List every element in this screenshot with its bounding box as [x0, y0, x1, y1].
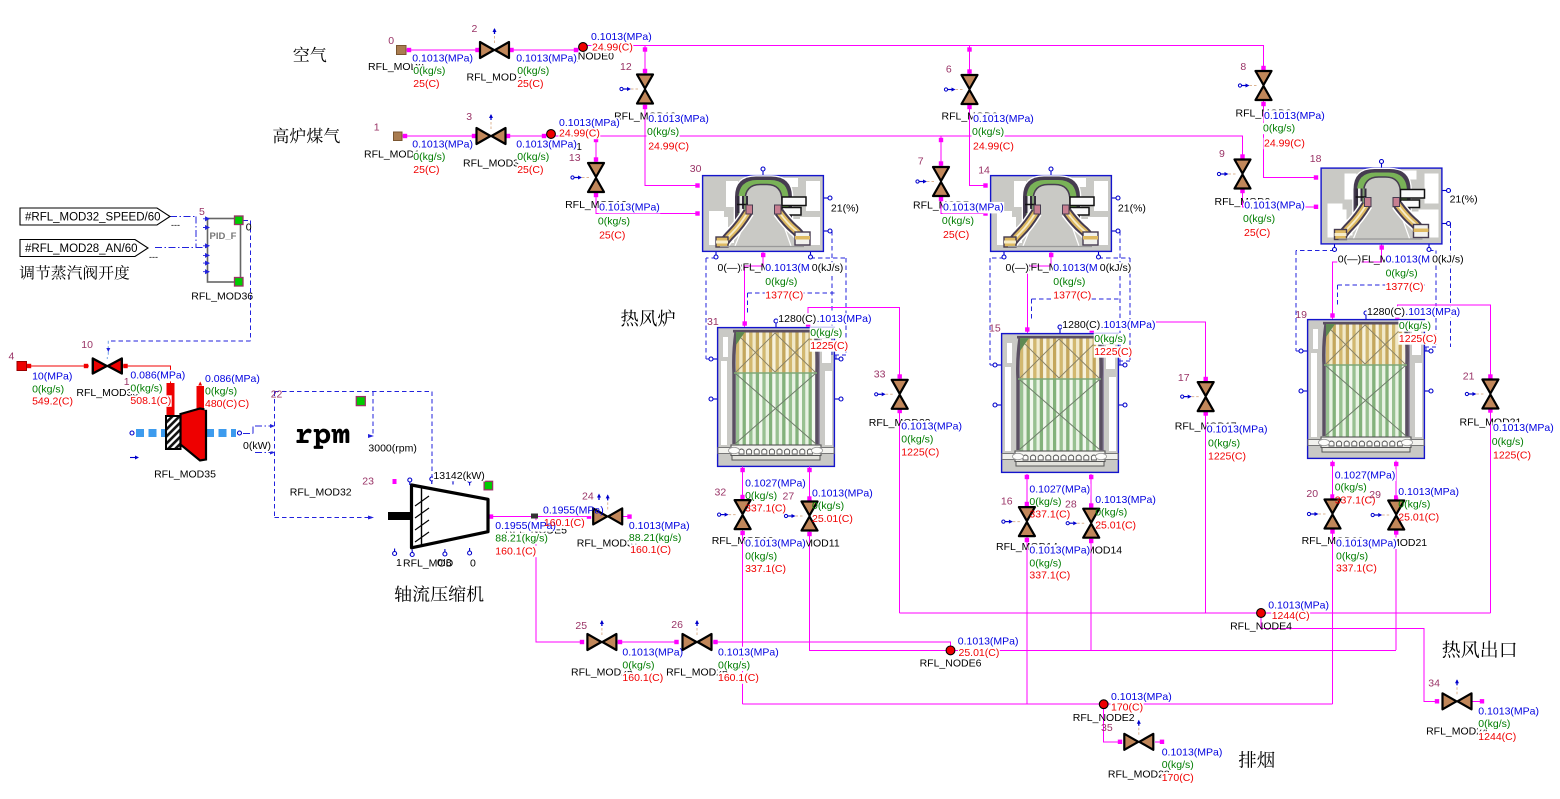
svg-text:0(kg/s): 0(kg/s)	[901, 434, 933, 446]
svg-text:31: 31	[707, 316, 719, 328]
node RFL_NODE2	[1099, 700, 1108, 709]
svg-text:18: 18	[1310, 153, 1322, 165]
svg-text:25(C): 25(C)	[1244, 227, 1270, 239]
svg-text:21(%): 21(%)	[831, 203, 859, 215]
regen 31 port stubs	[711, 358, 717, 360]
svg-text:0(—): 0(—)	[718, 262, 741, 274]
svg-text:0(kg/s): 0(kg/s)	[517, 65, 549, 77]
input tag #RFL_MOD32_SPEED/60	[20, 208, 170, 225]
wire regen 31 to valve 27	[809, 467, 811, 502]
svg-text:21: 21	[1463, 371, 1475, 383]
svg-text:RFL_MOD23: RFL_MOD23	[1108, 769, 1170, 781]
svg-text:RFL_MOD30: RFL_MOD30	[76, 387, 138, 399]
wire valve 21 to header	[1489, 394, 1491, 613]
valve RFL_MOD2	[494, 34, 496, 43]
wire regen 19 hot outlet to valve 21	[1397, 305, 1490, 379]
svg-text:9: 9	[1219, 148, 1225, 160]
svg-text:25(C): 25(C)	[943, 229, 969, 241]
svg-text:#RFL_MOD28_AN/60: #RFL_MOD28_AN/60	[25, 243, 138, 255]
valve RFL_MOD12	[629, 88, 638, 90]
svg-text:26: 26	[671, 619, 683, 631]
svg-text:0!8: 0!8	[437, 557, 452, 569]
svg-text:0.1013(M: 0.1013(M	[1386, 254, 1430, 266]
wire steam source to valve 10	[26, 365, 89, 367]
svg-text:88.21(kg/s): 88.21(kg/s)	[629, 532, 682, 544]
valve RFL_MOD3	[490, 120, 492, 129]
svg-text:0(kg/s): 0(kg/s)	[745, 490, 777, 502]
svg-text:0.1013(MPa): 0.1013(MPa)	[1029, 544, 1090, 556]
svg-text:19: 19	[1295, 309, 1307, 321]
svg-text:1377(C): 1377(C)	[1386, 281, 1424, 293]
signal wire turbine speed dash-dot	[243, 427, 253, 434]
svg-text:34: 34	[1428, 678, 1440, 690]
svg-text:337.1(C): 337.1(C)	[1336, 563, 1377, 575]
valve RFL_MOD33 hot blast 1	[884, 393, 893, 395]
svg-text:160.1(C): 160.1(C)	[495, 546, 536, 558]
svg-text:0(kg/s): 0(kg/s)	[1478, 718, 1510, 730]
wire valve 28 to cold main	[1090, 538, 1092, 651]
svg-text:25.01(C): 25.01(C)	[1398, 511, 1439, 523]
svg-text:23: 23	[362, 475, 374, 487]
svg-text:0(kg/s): 0(kg/s)	[205, 386, 237, 398]
wire valve 20 to smoke main	[1332, 528, 1334, 704]
svg-text:20: 20	[1306, 488, 1318, 500]
hot blast stove furnace 14	[991, 176, 1112, 252]
svg-text:1: 1	[374, 122, 380, 134]
svg-text:0.1955(MPa): 0.1955(MPa)	[543, 504, 604, 516]
svg-text:0: 0	[388, 35, 394, 47]
svg-text:0(kg/s): 0(kg/s)	[413, 151, 445, 163]
svg-text:15: 15	[989, 323, 1001, 335]
wire cold blast main	[810, 649, 1397, 651]
hot blast stove furnace 18	[1321, 168, 1442, 244]
svg-text:88.21(kg/s): 88.21(kg/s)	[495, 533, 548, 545]
stove 30 port stubs	[762, 169, 764, 175]
wire valve 8 inlet	[1263, 60, 1265, 71]
wire valve 9 to stove 18	[1243, 189, 1318, 207]
svg-text:0.1013(MPa): 0.1013(MPa)	[718, 647, 779, 659]
svg-text:1377(C): 1377(C)	[765, 290, 803, 302]
label 热风炉 (hot blast stove)	[621, 309, 675, 326]
svg-text:1225(C): 1225(C)	[1399, 333, 1437, 345]
svg-text:0(kg/s): 0(kg/s)	[1162, 759, 1194, 771]
node RFL_NODE0	[579, 43, 588, 52]
wire compressor outlet	[488, 517, 583, 642]
svg-text:0.1013(MPa): 0.1013(MPa)	[1162, 747, 1223, 759]
svg-text:0(kg/s): 0(kg/s)	[1029, 557, 1061, 569]
wire regen 31 hot outlet to valve 33	[808, 308, 900, 380]
wire valve 6 to stove 14	[970, 104, 988, 186]
svg-text:0(kg/s): 0(kg/s)	[812, 500, 844, 512]
svg-text:0.1013(MPa): 0.1013(MPa)	[745, 538, 806, 550]
regen 15 port stubs	[995, 364, 1001, 366]
valve RFL_MOD11 cold 1	[794, 515, 803, 517]
svg-text:1280(C): 1280(C)	[1367, 306, 1405, 318]
svg-text:160.1(C): 160.1(C)	[544, 517, 585, 529]
svg-text:21(%): 21(%)	[1118, 203, 1146, 215]
svg-text:5: 5	[199, 206, 205, 218]
label 调节蒸汽阀开度	[20, 265, 130, 280]
wire NODE2 to valve 35	[1104, 708, 1121, 742]
svg-text:0(kJ/s): 0(kJ/s)	[812, 262, 844, 274]
svg-text:17: 17	[1178, 372, 1190, 384]
svg-text:170(C): 170(C)	[1111, 702, 1143, 714]
wire valve 13 to stove 30	[596, 192, 699, 214]
speed display rpm block RFL_MOD32	[296, 429, 349, 449]
svg-text:0.1013(MPa): 0.1013(MPa)	[958, 635, 1019, 647]
compressor power green square	[484, 481, 493, 490]
svg-text:1244(C): 1244(C)	[1478, 731, 1516, 743]
svg-text:1225(C): 1225(C)	[901, 447, 939, 459]
svg-text:27: 27	[783, 490, 795, 502]
svg-text:0.1013(MPa): 0.1013(MPa)	[516, 138, 577, 150]
valve RFL_MOD14 flue 2	[1011, 521, 1020, 523]
svg-text:0(kg/s): 0(kg/s)	[1336, 550, 1368, 562]
svg-text:0(kg/s): 0(kg/s)	[718, 659, 750, 671]
svg-text:160.1(C): 160.1(C)	[630, 544, 671, 556]
svg-text:.1013(MPa): .1013(MPa)	[1405, 306, 1460, 318]
svg-text:28: 28	[1065, 499, 1077, 511]
svg-text:0.1013(MPa): 0.1013(MPa)	[622, 647, 683, 659]
wire valve 8 to stove 18	[1264, 100, 1318, 178]
valve RFL_MOD25	[601, 626, 603, 635]
svg-text:13: 13	[569, 152, 581, 164]
source RFL_MOD1 gas	[394, 132, 403, 141]
svg-text:#RFL_MOD32_SPEED/60: #RFL_MOD32_SPEED/60	[25, 212, 161, 224]
wire valve 29 to cold main	[1395, 529, 1397, 650]
svg-text:14: 14	[978, 164, 990, 176]
svg-text:RFL_MOD3: RFL_MOD3	[463, 158, 519, 170]
wire gas branch valve 7	[940, 136, 942, 167]
PID controller RFL_MOD36	[208, 219, 241, 283]
svg-text:.1013(MPa): .1013(MPa)	[817, 313, 872, 325]
svg-text:0.1013(MPa): 0.1013(MPa)	[943, 202, 1004, 214]
node RFL_NODE4	[1257, 609, 1266, 618]
wire valve 24 outlet vent	[623, 516, 632, 518]
svg-text:0.1013(MPa): 0.1013(MPa)	[901, 421, 962, 433]
node RFL_NODE1	[547, 130, 556, 139]
wire valve 7 to stove 14	[941, 196, 987, 214]
svg-text:0.1013(M: 0.1013(M	[1053, 262, 1097, 274]
regen 19 port stubs	[1301, 350, 1307, 352]
wire air source to NODE0	[406, 49, 579, 51]
svg-text:0(kg/s): 0(kg/s)	[32, 383, 64, 395]
svg-text:337.1(C): 337.1(C)	[745, 563, 786, 575]
svg-text:21(%): 21(%)	[1450, 194, 1478, 206]
svg-text:1: 1	[124, 376, 130, 388]
svg-text:1225(C): 1225(C)	[1094, 346, 1132, 358]
svg-text:29: 29	[1369, 489, 1381, 501]
svg-text:0(kg/s): 0(kg/s)	[1094, 333, 1126, 345]
wire air branch valve 12	[644, 46, 646, 75]
svg-text:24.99(C): 24.99(C)	[559, 128, 600, 140]
valve RFL_MOD19 flue 3	[1317, 513, 1326, 515]
svg-text:1: 1	[396, 557, 402, 569]
svg-text:1280(C): 1280(C)	[778, 313, 816, 325]
turbine RFL_MOD35	[136, 429, 166, 437]
svg-text:0(kg/s): 0(kg/s)	[647, 126, 679, 138]
svg-text:---: ---	[149, 252, 158, 262]
valve RFL_MOD13	[580, 177, 589, 179]
svg-text:160.1(C): 160.1(C)	[622, 672, 663, 684]
svg-text:25: 25	[575, 620, 587, 632]
wire regen 15 to valve 16	[1026, 474, 1028, 507]
valve RFL_MOD15 cold 2	[1075, 522, 1084, 524]
svg-text:0(kg/s): 0(kg/s)	[413, 65, 445, 77]
input tag #RFL_MOD28_AN/60	[20, 240, 148, 257]
svg-text:0: 0	[246, 221, 252, 233]
label 排烟 (smoke exhaust)	[1239, 751, 1275, 768]
svg-text:25(C): 25(C)	[517, 164, 543, 176]
svg-text:1225(C): 1225(C)	[1493, 450, 1531, 462]
svg-text:3000(rpm): 3000(rpm)	[368, 443, 416, 455]
svg-text:22: 22	[271, 389, 283, 401]
svg-text:RFL_MOD2: RFL_MOD2	[467, 72, 523, 84]
wire air branch valve 6	[969, 46, 971, 76]
svg-text:RFL_MOD35: RFL_MOD35	[154, 468, 216, 480]
svg-text:0(kg/s): 0(kg/s)	[1208, 437, 1240, 449]
svg-text:549.2(C): 549.2(C)	[32, 396, 73, 408]
svg-text:0.086(MPa): 0.086(MPa)	[205, 373, 260, 385]
svg-text:0(kg/s): 0(kg/s)	[1053, 276, 1085, 288]
valve RFL_MOD34 hot outlet	[1456, 685, 1458, 694]
svg-text:0(kJ/s): 0(kJ/s)	[1432, 254, 1464, 266]
svg-text:6: 6	[946, 64, 952, 76]
svg-text:RFL_NODE4: RFL_NODE4	[1230, 621, 1292, 633]
svg-text:0.1013(MPa): 0.1013(MPa)	[1336, 537, 1397, 549]
svg-text:10: 10	[81, 339, 93, 351]
svg-text:0(kg/s): 0(kg/s)	[810, 327, 842, 339]
svg-text:0(kg/s): 0(kg/s)	[1243, 213, 1275, 225]
svg-text:0(kg/s): 0(kg/s)	[1399, 320, 1431, 332]
valve RFL_MOD30 steam red	[106, 357, 108, 359]
wire to valve 24	[536, 516, 590, 518]
svg-text:0.1013(MPa): 0.1013(MPa)	[412, 138, 473, 150]
svg-text:0(—): 0(—)	[1338, 254, 1361, 266]
svg-text:0.1027(MPa): 0.1027(MPa)	[745, 478, 806, 490]
valve RFL_MOD9	[1227, 173, 1236, 175]
svg-text:8: 8	[1240, 61, 1246, 73]
svg-text:0.1013(MPa): 0.1013(MPa)	[1207, 423, 1268, 435]
svg-text:7: 7	[918, 156, 924, 168]
svg-text:0.086(MPa): 0.086(MPa)	[130, 370, 185, 382]
value label backgrounds	[412, 53, 474, 65]
node RFL_NODE6	[946, 646, 955, 655]
svg-text:1225(C): 1225(C)	[1208, 450, 1246, 462]
svg-text:0.1013(MPa): 0.1013(MPa)	[1095, 494, 1156, 506]
wire gas source to NODE1	[402, 135, 547, 137]
svg-text:0(kg/s): 0(kg/s)	[942, 215, 974, 227]
svg-text:0(kg/s): 0(kg/s)	[1335, 482, 1367, 494]
stove 18 port stubs	[1381, 162, 1383, 168]
svg-text:25(C): 25(C)	[517, 78, 543, 90]
wire regen 15 to valve 28	[1090, 474, 1092, 509]
svg-text:25(C): 25(C)	[413, 78, 439, 90]
svg-text:0.1013(MPa): 0.1013(MPa)	[1398, 486, 1459, 498]
svg-text:0.1013(MPa): 0.1013(MPa)	[1244, 199, 1305, 211]
svg-text:0: 0	[470, 558, 476, 570]
wire valve 16 to smoke main	[1026, 537, 1028, 704]
signal wire tag1 to PID	[170, 216, 196, 247]
valve RFL_MOD20 cold 3	[1380, 514, 1389, 516]
svg-text:0.1027(MPa): 0.1027(MPa)	[1335, 469, 1396, 481]
valve RFL_MOD35b smoke	[1138, 726, 1140, 735]
svg-text:480(C): 480(C)	[205, 398, 237, 410]
svg-text:16: 16	[1001, 496, 1013, 508]
wire valve 34 outlet	[1472, 700, 1483, 702]
svg-text:0(—): 0(—)	[1006, 262, 1029, 274]
svg-text:0.1013(MPa): 0.1013(MPa)	[648, 113, 709, 125]
svg-text:0.1013(MPa): 0.1013(MPa)	[412, 52, 473, 64]
svg-text:RFL_NODE6: RFL_NODE6	[920, 658, 982, 670]
svg-text:0.1013(MPa): 0.1013(MPa)	[973, 113, 1034, 125]
svg-text:0.1013(MPa): 0.1013(MPa)	[629, 520, 690, 532]
svg-text:0(kg/s): 0(kg/s)	[622, 659, 654, 671]
wire regen 15 hot outlet to valve 17	[1092, 322, 1206, 382]
signal wires stove18-regen19 dashed	[1296, 245, 1335, 352]
svg-text:0(kg/s): 0(kg/s)	[765, 276, 797, 288]
svg-text:24.99(C): 24.99(C)	[648, 141, 689, 153]
wire valve 10 to turbine	[123, 366, 171, 384]
svg-text:10(MPa): 10(MPa)	[32, 371, 72, 383]
svg-text:---: ---	[171, 220, 180, 230]
wire NODE4 to valve 34 hot blast outlet	[1261, 617, 1438, 701]
svg-text:1244(C): 1244(C)	[1272, 610, 1310, 622]
svg-text:.1013(MPa): .1013(MPa)	[1101, 319, 1156, 331]
svg-text:30: 30	[690, 163, 702, 175]
svg-text:0(kg/s): 0(kg/s)	[130, 382, 162, 394]
wire stove 18 to regen 19	[1333, 245, 1382, 320]
svg-text:1225(C): 1225(C)	[810, 340, 848, 352]
svg-text:160.1(C): 160.1(C)	[718, 672, 759, 684]
wire valve 9 inlet	[1242, 148, 1244, 160]
svg-text:0.1013(MPa): 0.1013(MPa)	[599, 202, 660, 214]
compressor RFL_MOD28	[388, 512, 412, 520]
valve RFL_MOD24 blowoff	[607, 500, 609, 509]
wire valve 26 to NODE6	[713, 642, 951, 650]
label 热风出口 (hot blast outlet)	[1442, 641, 1515, 658]
regenerator checker chamber 31	[718, 328, 835, 467]
svg-text:1377(C): 1377(C)	[1053, 290, 1091, 302]
label 轴流压缩机 (axial compressor)	[395, 585, 484, 602]
wire regen 19 to valve 29	[1395, 461, 1397, 501]
svg-text:24: 24	[582, 491, 594, 503]
svg-text:24.99(C): 24.99(C)	[1264, 138, 1305, 150]
svg-text:1280(C): 1280(C)	[1062, 319, 1100, 331]
svg-text:0.1013(MPa): 0.1013(MPa)	[516, 52, 577, 64]
wire smoke main	[743, 703, 1333, 705]
svg-text:0.1013(MPa): 0.1013(MPa)	[1264, 110, 1325, 122]
regenerator checker chamber 15	[1002, 334, 1119, 473]
wire valve 33 to header	[899, 395, 901, 613]
svg-text:0(kW): 0(kW)	[243, 440, 271, 452]
signal wires speed block RFL_MOD32 dashed box	[275, 392, 432, 518]
svg-text:25.01(C): 25.01(C)	[959, 647, 1000, 659]
regenerator checker chamber 19	[1308, 320, 1425, 459]
svg-text:337.1(C): 337.1(C)	[745, 503, 786, 515]
svg-text:25.01(C): 25.01(C)	[1095, 519, 1136, 531]
svg-text:25(C): 25(C)	[413, 164, 439, 176]
valve RFL_MOD21 hot blast 3	[1474, 393, 1483, 395]
valve RFL_MOD6	[954, 89, 963, 91]
svg-text:0(kg/s): 0(kg/s)	[1398, 499, 1430, 511]
wire air header NODE0 to valve 8	[585, 46, 1264, 61]
source RFL_MOD4 steam	[17, 362, 27, 371]
signal wires stove30-regen31 dashed	[706, 252, 716, 359]
source RFL_MOD0 air	[397, 46, 407, 55]
wire valve 12 to stove 30	[645, 104, 699, 186]
svg-text:0.1013(MPa): 0.1013(MPa)	[1493, 422, 1554, 434]
svg-text:0(kg/s): 0(kg/s)	[598, 216, 630, 228]
signal wire tag2 to PID	[155, 247, 207, 249]
signal wires stove14-regen15 dashed	[990, 252, 1004, 365]
svg-text:3: 3	[466, 111, 472, 123]
valve RFL_MOD7	[925, 181, 934, 183]
svg-text:0(kg/s): 0(kg/s)	[1386, 268, 1418, 280]
svg-text:0(kg/s): 0(kg/s)	[1095, 507, 1127, 519]
svg-text:25(C): 25(C)	[599, 230, 625, 242]
svg-text:0(kg/s): 0(kg/s)	[972, 126, 1004, 138]
wire valve 17 to header	[1205, 397, 1207, 613]
label 高炉煤气 (blast furnace gas)	[273, 128, 340, 144]
wire valve 27 to cold main	[810, 531, 947, 651]
wire valve 32 to smoke main	[742, 530, 744, 704]
wire valve 35 outlet	[1155, 741, 1163, 743]
svg-text:PID_F: PID_F	[210, 231, 237, 242]
svg-text:508.1(C): 508.1(C)	[130, 395, 171, 407]
wire hot blast header	[900, 612, 1491, 614]
svg-text:0(kg/s): 0(kg/s)	[745, 551, 777, 563]
valve RFL_MOD17 hot blast 2	[1190, 396, 1199, 398]
svg-text:0(kJ/s): 0(kJ/s)	[1100, 262, 1132, 274]
svg-text:12: 12	[620, 61, 632, 73]
svg-text:C): C)	[238, 398, 249, 410]
valve RFL_MOD10 flue 1	[727, 514, 736, 516]
svg-text:0(kg/s): 0(kg/s)	[1029, 496, 1061, 508]
valve RFL_MOD8	[1248, 85, 1257, 87]
svg-text:24.99(C): 24.99(C)	[973, 141, 1014, 153]
wire stove 30 to regen 31	[745, 252, 764, 327]
svg-text:0.1027(MPa): 0.1027(MPa)	[1029, 484, 1090, 496]
node RFL_NODE5 tick	[531, 514, 538, 519]
wire regen 31 to valve 32	[742, 467, 744, 500]
svg-text:0.1013(MPa): 0.1013(MPa)	[1478, 706, 1539, 718]
svg-text:24.99(C): 24.99(C)	[592, 42, 633, 54]
svg-text:0.1013(M: 0.1013(M	[765, 262, 809, 274]
svg-text:33: 33	[874, 368, 886, 380]
svg-text:35: 35	[1101, 722, 1113, 734]
svg-text:32: 32	[715, 487, 727, 499]
stove 14 port stubs	[1050, 169, 1052, 175]
svg-text:170(C): 170(C)	[1162, 772, 1194, 784]
wire stove 14 to regen 15	[1027, 252, 1051, 333]
svg-text:0(kg/s): 0(kg/s)	[517, 151, 549, 163]
svg-text:337.1(C): 337.1(C)	[1029, 570, 1070, 582]
wire regen 19 to valve 20	[1332, 461, 1334, 500]
svg-text:0(kg/s): 0(kg/s)	[1492, 436, 1524, 448]
svg-text:2: 2	[472, 23, 478, 35]
signal wire PID output to valve 10	[108, 221, 250, 341]
hot blast stove furnace 30	[703, 176, 824, 252]
svg-text:RFL_MOD36: RFL_MOD36	[191, 291, 253, 303]
wire gas branch valve 13	[595, 136, 597, 163]
svg-text:RFL_MOD32: RFL_MOD32	[290, 487, 352, 499]
svg-text:4: 4	[9, 350, 15, 362]
label 空气 (air)	[294, 47, 327, 63]
svg-text:13142(kW): 13142(kW)	[433, 470, 484, 482]
valve RFL_MOD26	[696, 626, 698, 635]
svg-text:25.01(C): 25.01(C)	[812, 513, 853, 525]
